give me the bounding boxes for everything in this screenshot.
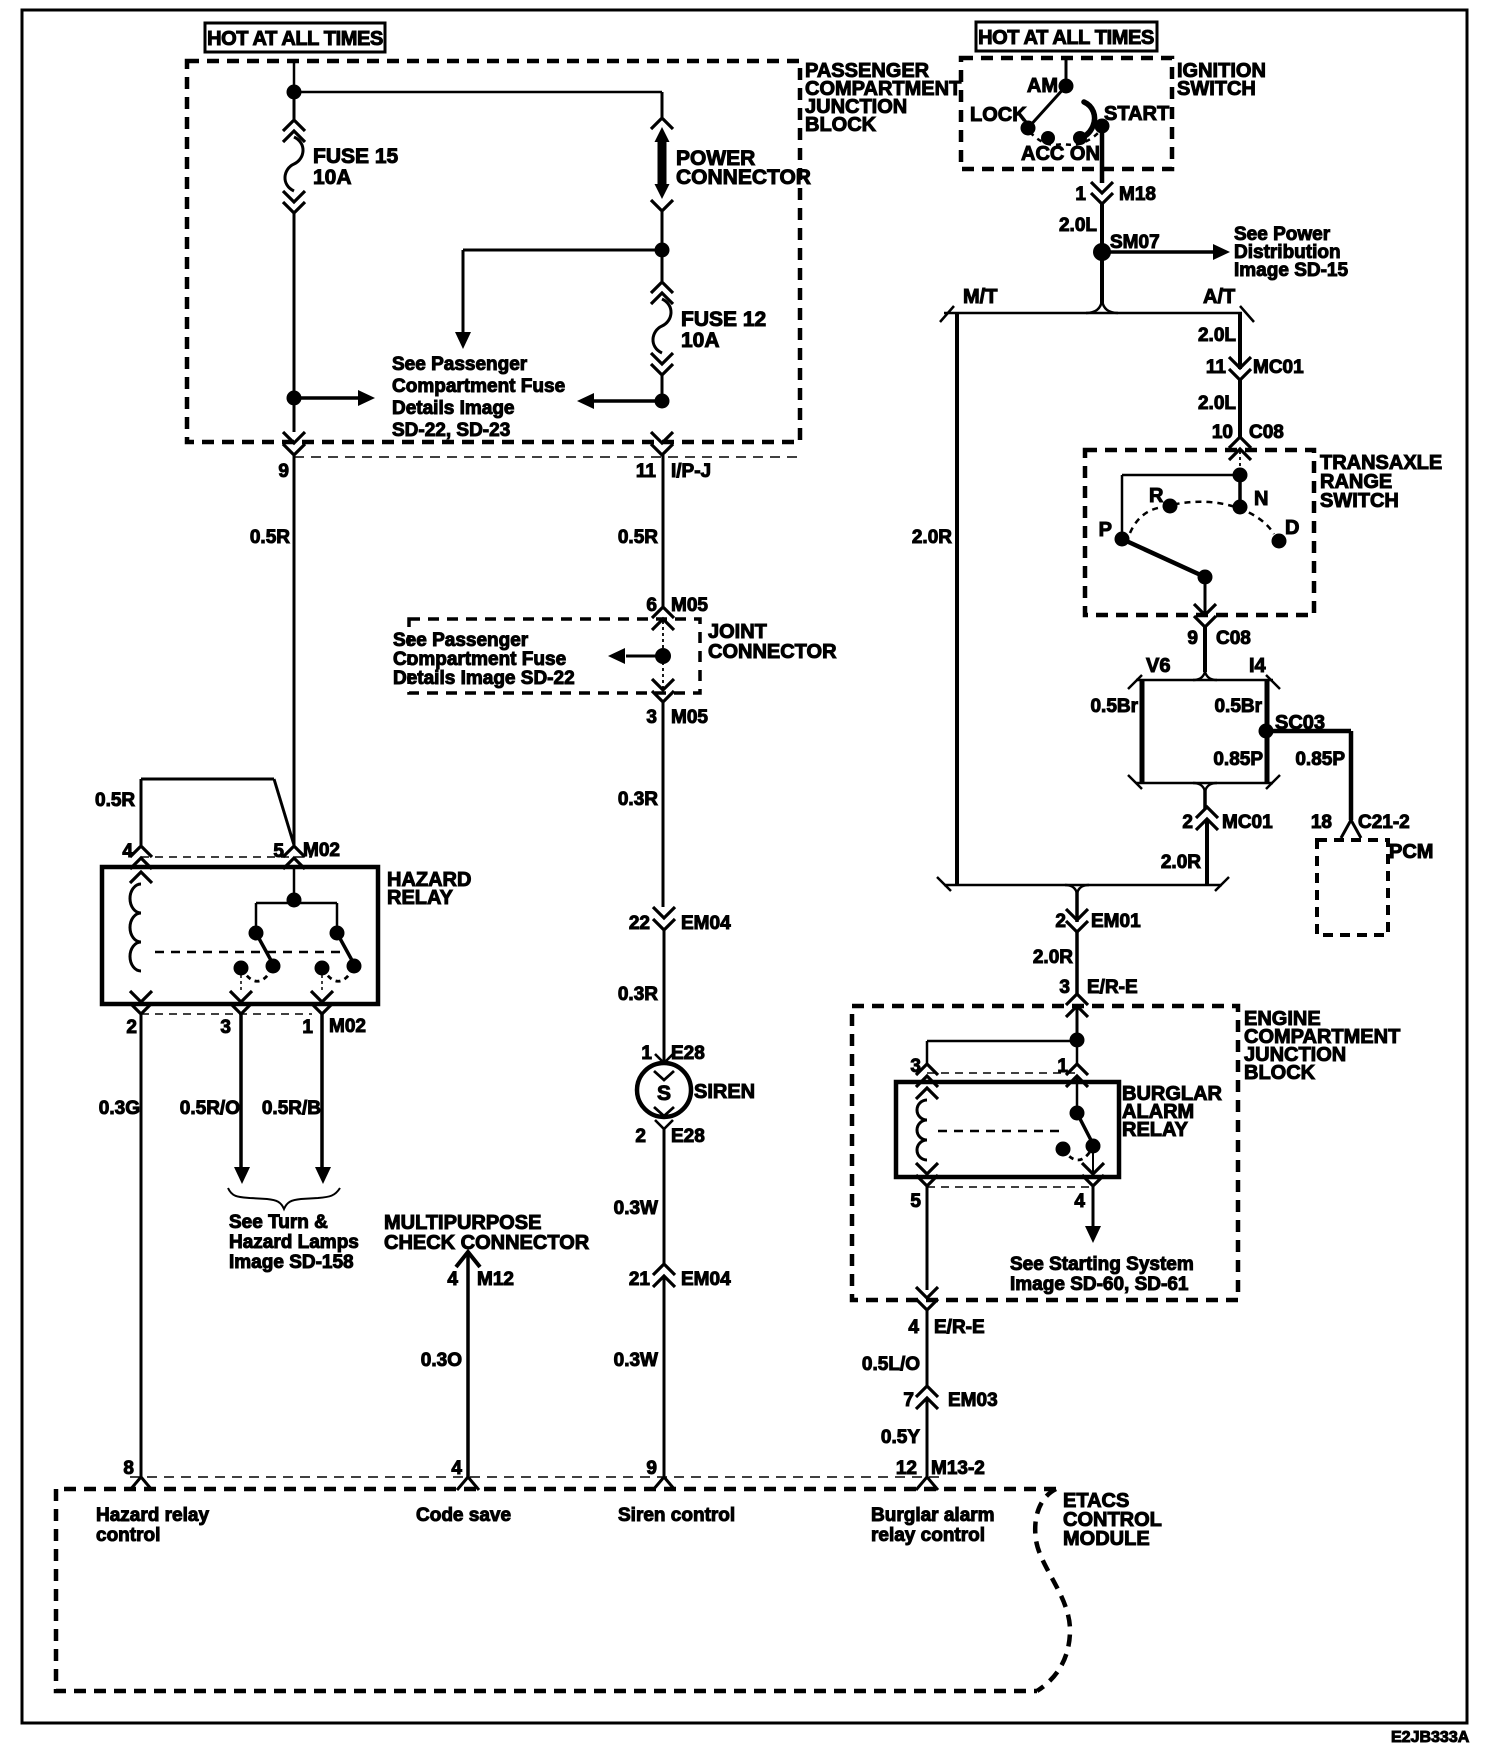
svg-text:E2JB333A: E2JB333A — [1391, 1729, 1470, 1746]
svg-text:SWITCH: SWITCH — [1320, 490, 1399, 512]
svg-text:0.3W: 0.3W — [614, 1198, 658, 1219]
svg-text:2: 2 — [1182, 812, 1193, 833]
svg-text:4: 4 — [1074, 1191, 1085, 1212]
svg-text:CONNECTOR: CONNECTOR — [676, 166, 811, 189]
svg-text:BLOCK: BLOCK — [805, 114, 877, 136]
svg-text:4: 4 — [451, 1458, 462, 1479]
svg-text:LOCK: LOCK — [970, 104, 1027, 126]
svg-text:C21-2: C21-2 — [1358, 812, 1410, 833]
svg-text:EM04: EM04 — [681, 1269, 731, 1290]
svg-text:See Turn &: See Turn & — [229, 1212, 328, 1233]
svg-text:CHECK CONNECTOR: CHECK CONNECTOR — [384, 1232, 590, 1254]
svg-text:21: 21 — [629, 1269, 651, 1290]
svg-text:C08: C08 — [1216, 628, 1251, 649]
svg-text:0.85P: 0.85P — [1213, 749, 1263, 770]
svg-text:FUSE 12: FUSE 12 — [681, 308, 766, 331]
svg-text:0.5R/B: 0.5R/B — [262, 1098, 321, 1119]
svg-text:8: 8 — [123, 1458, 134, 1479]
svg-text:D: D — [1285, 517, 1299, 539]
svg-text:N: N — [1254, 488, 1268, 510]
svg-text:0.5Br: 0.5Br — [1214, 696, 1262, 717]
svg-text:0.3R: 0.3R — [618, 984, 658, 1005]
svg-text:0.3O: 0.3O — [421, 1350, 462, 1371]
svg-text:2.0L: 2.0L — [1059, 215, 1097, 236]
svg-text:10A: 10A — [681, 329, 720, 352]
svg-text:0.3G: 0.3G — [99, 1098, 140, 1119]
svg-text:Image SD-60, SD-61: Image SD-60, SD-61 — [1010, 1274, 1189, 1295]
svg-text:M/T: M/T — [963, 286, 997, 308]
svg-text:SIREN: SIREN — [694, 1081, 755, 1103]
svg-text:Image SD-15: Image SD-15 — [1234, 260, 1348, 281]
svg-text:M02: M02 — [329, 1016, 366, 1037]
svg-text:2.0R: 2.0R — [1033, 947, 1073, 968]
svg-text:HOT AT ALL TIMES: HOT AT ALL TIMES — [978, 27, 1154, 49]
svg-text:4: 4 — [447, 1269, 458, 1290]
svg-text:ACC ON: ACC ON — [1021, 143, 1100, 165]
svg-text:E/R-E: E/R-E — [934, 1317, 985, 1338]
svg-text:C08: C08 — [1249, 422, 1284, 443]
svg-text:P: P — [1099, 519, 1112, 541]
svg-text:18: 18 — [1311, 812, 1332, 833]
svg-text:R: R — [1149, 485, 1164, 507]
svg-text:2.0R: 2.0R — [912, 527, 952, 548]
svg-text:Hazard Lamps: Hazard Lamps — [229, 1232, 359, 1253]
svg-text:3: 3 — [220, 1017, 231, 1038]
svg-text:EM03: EM03 — [948, 1390, 998, 1411]
svg-text:V6: V6 — [1146, 655, 1170, 677]
svg-text:PCM: PCM — [1389, 841, 1433, 863]
svg-text:0.5L/O: 0.5L/O — [862, 1354, 920, 1375]
svg-text:0.5Br: 0.5Br — [1090, 696, 1138, 717]
svg-text:CONNECTOR: CONNECTOR — [708, 641, 837, 663]
svg-text:Compartment Fuse: Compartment Fuse — [393, 649, 566, 670]
svg-text:Code save: Code save — [416, 1505, 511, 1526]
svg-text:A/T: A/T — [1203, 286, 1235, 308]
svg-text:Details Image SD-22: Details Image SD-22 — [393, 668, 575, 689]
svg-text:Compartment Fuse: Compartment Fuse — [392, 376, 565, 397]
svg-text:MULTIPURPOSE: MULTIPURPOSE — [384, 1212, 541, 1234]
svg-text:E/R-E: E/R-E — [1087, 977, 1138, 998]
svg-text:1: 1 — [641, 1043, 652, 1064]
svg-text:3: 3 — [1059, 977, 1070, 998]
svg-text:SWITCH: SWITCH — [1177, 78, 1256, 100]
svg-text:M12: M12 — [477, 1269, 514, 1290]
svg-text:0.3R: 0.3R — [618, 789, 658, 810]
svg-text:9: 9 — [646, 1458, 657, 1479]
svg-text:22: 22 — [629, 913, 650, 934]
svg-text:M13-2: M13-2 — [931, 1458, 985, 1479]
svg-text:10A: 10A — [313, 166, 352, 189]
svg-text:FUSE 15: FUSE 15 — [313, 145, 399, 168]
svg-text:11: 11 — [636, 461, 657, 482]
svg-text:0.85P: 0.85P — [1295, 749, 1345, 770]
svg-text:0.5R: 0.5R — [618, 527, 658, 548]
svg-text:RELAY: RELAY — [1122, 1119, 1189, 1141]
svg-text:START: START — [1104, 103, 1169, 125]
svg-text:M05: M05 — [671, 707, 708, 728]
svg-text:9: 9 — [1187, 628, 1198, 649]
svg-text:JOINT: JOINT — [708, 621, 767, 643]
svg-text:2: 2 — [635, 1126, 646, 1147]
svg-text:E28: E28 — [671, 1126, 705, 1147]
svg-text:MC01: MC01 — [1253, 357, 1304, 378]
svg-text:1: 1 — [1075, 184, 1086, 205]
svg-text:Burglar alarm: Burglar alarm — [871, 1505, 995, 1526]
svg-text:RELAY: RELAY — [387, 887, 454, 909]
svg-text:S: S — [657, 1082, 671, 1105]
svg-text:MC01: MC01 — [1222, 812, 1273, 833]
svg-text:HOT AT ALL TIMES: HOT AT ALL TIMES — [207, 28, 383, 50]
svg-text:SM07: SM07 — [1110, 232, 1160, 253]
svg-text:See Passenger: See Passenger — [392, 354, 528, 375]
svg-text:3: 3 — [646, 707, 657, 728]
svg-text:2: 2 — [126, 1017, 137, 1038]
svg-text:BLOCK: BLOCK — [1244, 1062, 1316, 1084]
svg-text:Siren control: Siren control — [618, 1505, 735, 1526]
svg-text:4: 4 — [122, 841, 133, 862]
svg-text:0.5R: 0.5R — [95, 790, 135, 811]
svg-text:0.5Y: 0.5Y — [881, 1427, 920, 1448]
svg-text:E28: E28 — [671, 1043, 705, 1064]
svg-text:Hazard relay: Hazard relay — [96, 1505, 209, 1526]
svg-text:0.3W: 0.3W — [614, 1350, 658, 1371]
svg-text:Image SD-158: Image SD-158 — [229, 1252, 354, 1273]
svg-text:M05: M05 — [671, 595, 708, 616]
svg-text:EM01: EM01 — [1091, 911, 1141, 932]
svg-text:M02: M02 — [303, 840, 340, 861]
svg-text:M18: M18 — [1119, 184, 1156, 205]
svg-text:control: control — [96, 1525, 160, 1546]
svg-text:SD-22, SD-23: SD-22, SD-23 — [392, 420, 510, 441]
svg-text:5: 5 — [910, 1191, 921, 1212]
svg-text:Details Image: Details Image — [392, 398, 515, 419]
svg-text:I4: I4 — [1249, 655, 1267, 677]
svg-text:0.5R: 0.5R — [250, 527, 290, 548]
svg-text:4: 4 — [908, 1317, 919, 1338]
svg-text:5: 5 — [273, 841, 284, 862]
svg-text:11: 11 — [1206, 357, 1227, 378]
svg-text:2.0L: 2.0L — [1198, 393, 1236, 414]
svg-text:I/P-J: I/P-J — [671, 461, 711, 482]
svg-text:MODULE: MODULE — [1063, 1528, 1150, 1550]
svg-text:9: 9 — [278, 461, 289, 482]
svg-text:relay control: relay control — [871, 1525, 985, 1546]
svg-text:AM: AM — [1027, 75, 1058, 97]
svg-text:1: 1 — [302, 1017, 313, 1038]
svg-text:2.0L: 2.0L — [1198, 325, 1236, 346]
svg-text:7: 7 — [903, 1390, 914, 1411]
svg-text:EM04: EM04 — [681, 913, 731, 934]
svg-text:0.5R/O: 0.5R/O — [180, 1098, 240, 1119]
svg-text:10: 10 — [1212, 422, 1233, 443]
svg-text:2.0R: 2.0R — [1161, 852, 1201, 873]
svg-text:12: 12 — [896, 1458, 917, 1479]
svg-text:2: 2 — [1055, 911, 1066, 932]
svg-text:See Starting System: See Starting System — [1010, 1254, 1194, 1275]
svg-text:See Passenger: See Passenger — [393, 630, 529, 651]
